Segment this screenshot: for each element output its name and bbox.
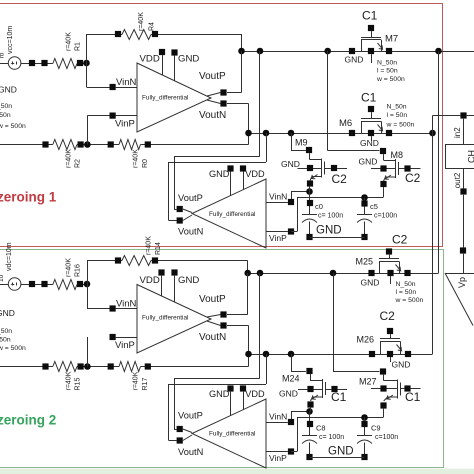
- svg-text:VoutP: VoutP: [199, 294, 226, 305]
- U2 VoutP pin: [177, 206, 183, 212]
- wire nulling VoutN route (bottom): [266, 354, 268, 384]
- svg-text:C1: C1: [361, 91, 377, 105]
- U1 VoutP pin: [220, 89, 226, 95]
- svg-text:r=40K: r=40K: [66, 149, 73, 168]
- U4 VDD pin: [240, 385, 246, 391]
- node mid bus M9 drain: [288, 130, 295, 137]
- node bus2 nulling riser: [257, 270, 264, 277]
- svg-text:l = 50n: l = 50n: [0, 337, 11, 344]
- wire node A2 up to R14 row: [87, 261, 89, 285]
- svg-text:w = 500n: w = 500n: [0, 345, 26, 352]
- U3 VinN pin: [110, 305, 116, 311]
- node top bus / VoutP: [238, 48, 245, 55]
- svg-text:C1: C1: [405, 390, 421, 404]
- svg-text:r=40K: r=40K: [133, 149, 140, 168]
- svg-text:zeroing 2: zeroing 2: [0, 413, 56, 428]
- U2 VinP pin: [288, 228, 294, 234]
- svg-text:in2: in2: [453, 127, 462, 138]
- wire node A2 down to VinN: [87, 284, 89, 309]
- wire R0 to feedback riser: [141, 144, 249, 146]
- resistor R17 r=40K: [119, 362, 140, 372]
- svg-text:Fully_differential: Fully_differential: [142, 95, 188, 102]
- out2 terminal: [460, 188, 466, 194]
- svg-text:r=40K: r=40K: [66, 258, 73, 277]
- pale green strip bottom: [0, 469, 474, 474]
- svg-text:GND: GND: [209, 389, 230, 399]
- svg-text:w = 500n: w = 500n: [395, 297, 424, 304]
- node A2 junction: [84, 281, 91, 288]
- transistor M9 (switch): [291, 133, 293, 150]
- voltage source V1 vcc=10m: [8, 57, 21, 70]
- node bus3 M24 drain: [288, 351, 295, 358]
- U4 GND pin: [227, 385, 233, 391]
- svg-text:r=40K: r=40K: [66, 371, 73, 390]
- U3 VoutN pin: [220, 322, 226, 328]
- svg-text:GND: GND: [345, 55, 364, 65]
- wire VoutN to mid bus: [227, 103, 249, 105]
- U4 VinP pin: [288, 448, 294, 454]
- svg-text:VoutN: VoutN: [199, 110, 226, 121]
- wire R1 to node A: [77, 63, 87, 65]
- wire V2 top bus down to M25 row: [438, 51, 440, 273]
- svg-text:Vp: Vp: [457, 277, 467, 288]
- capacitor c0 c=100n: [309, 192, 311, 215]
- transistor M25 (switch on bus2): [386, 248, 392, 254]
- svg-text:l = 50n: l = 50n: [387, 112, 408, 119]
- wire VinN2 to cap node: [291, 192, 293, 200]
- svg-text:l = 50n: l = 50n: [396, 289, 417, 296]
- U1 VinN pin: [110, 84, 116, 90]
- U3 VoutP pin: [220, 311, 226, 317]
- svg-text:VinN: VinN: [116, 299, 137, 310]
- svg-text:VDD: VDD: [245, 389, 265, 399]
- svg-text:R17: R17: [142, 378, 149, 391]
- svg-text:VDD: VDD: [245, 169, 265, 179]
- wire VinP2 azero run: [291, 231, 297, 233]
- svg-text:M26: M26: [357, 335, 375, 345]
- op-amp U4 nulling Fully_differential triangle (points left): [192, 399, 266, 468]
- wire VoutN3 to bus3: [227, 325, 249, 327]
- node bus3 VoutN4 drop: [263, 351, 270, 358]
- wire source left stub (bottom): [0, 284, 8, 286]
- svg-text:vcc=10m: vcc=10m: [7, 26, 14, 54]
- U4 VinN pin: [288, 419, 294, 425]
- voltage source V2 vdc=10m: [8, 278, 21, 291]
- svg-text:M25: M25: [356, 257, 374, 267]
- svg-text:N_50n: N_50n: [377, 60, 397, 67]
- wire nulling VoutN route: [266, 133, 268, 162]
- svg-text:GND: GND: [178, 275, 199, 286]
- svg-text:R0: R0: [142, 159, 149, 168]
- resistor R16 r=40K: [53, 280, 77, 290]
- wire in2 to chopper: [463, 119, 465, 144]
- svg-text:VinP: VinP: [269, 453, 287, 463]
- wire bottom input row y=366.5: [0, 366, 53, 368]
- svg-text:GND: GND: [360, 138, 379, 148]
- U3 VDD pin: [158, 269, 164, 275]
- red box around zeroing-1 section: [0, 4, 443, 247]
- wire VinN4 to cap node: [291, 411, 293, 419]
- U4 VoutP pin: [177, 426, 183, 432]
- node right bus top: [435, 48, 442, 55]
- svg-text:M7: M7: [385, 34, 398, 45]
- svg-text:R15: R15: [75, 378, 82, 391]
- node B2 junction R15/R17: [84, 363, 91, 370]
- svg-text:VoutN: VoutN: [178, 447, 203, 457]
- mid bus wire y=133: [249, 133, 433, 135]
- svg-text:VDD: VDD: [140, 275, 160, 286]
- U2 GND pin: [227, 165, 233, 171]
- svg-text:N_50n: N_50n: [0, 103, 12, 110]
- node bus2 M27 drain riser: [330, 270, 337, 277]
- U1 VinP pin: [110, 113, 116, 119]
- transistor M26 (switch on bus3): [387, 328, 393, 334]
- svg-text:C2: C2: [392, 233, 408, 247]
- svg-text:VinN: VinN: [269, 412, 287, 422]
- resistor R0 r=40K: [119, 140, 140, 150]
- U2 VinN pin: [288, 199, 294, 205]
- svg-text:CH: CH: [467, 150, 474, 163]
- svg-text:VDD: VDD: [140, 54, 160, 65]
- svg-text:R2: R2: [75, 159, 82, 168]
- wire V1 mid bus down to M26: [432, 133, 434, 354]
- U2 VoutN pin: [177, 217, 183, 223]
- svg-text:VinN: VinN: [116, 77, 137, 88]
- svg-text:C2: C2: [332, 172, 348, 186]
- svg-text:R16: R16: [75, 264, 82, 277]
- svg-text:GND: GND: [392, 360, 411, 370]
- wire in2 riser from mid bus: [432, 116, 434, 134]
- U1 VDD pin: [159, 49, 165, 55]
- svg-text:R4: R4: [149, 22, 156, 31]
- svg-text:GND: GND: [281, 159, 300, 169]
- resistor R15 r=40K: [53, 362, 77, 372]
- transistor M7 (switch on top bus): [368, 25, 374, 31]
- U4 VoutN pin: [177, 437, 183, 443]
- svg-text:VoutN: VoutN: [199, 332, 226, 343]
- svg-text:R14: R14: [155, 242, 162, 255]
- resistor R4 r=40K: [122, 30, 151, 40]
- wire R4 row left: [87, 34, 123, 36]
- svg-text:VoutP: VoutP: [178, 193, 203, 203]
- wire bus3 to M26 right terminal: [411, 354, 432, 356]
- svg-text:w = 500n: w = 500n: [386, 122, 415, 129]
- node VinN4/C8/M24-source: [306, 408, 313, 415]
- svg-text:VoutP: VoutP: [178, 411, 203, 421]
- wire nulling VoutP route (bottom): [259, 273, 261, 379]
- svg-text:w = 500n: w = 500n: [376, 76, 405, 83]
- chopper box CH: [446, 145, 474, 169]
- node for M8 drain riser: [324, 48, 331, 55]
- node mid bus VoutN1: [245, 130, 252, 137]
- op-amp U2 nulling Fully_differential triangle (points left): [192, 179, 266, 248]
- wire source left stub: [0, 63, 8, 65]
- svg-text:N_50n: N_50n: [396, 281, 416, 288]
- svg-text:VinP: VinP: [269, 233, 287, 243]
- node VinN2/C0/M9-source: [306, 188, 313, 195]
- op-amp Vp buffer triangle (partial): [445, 273, 474, 275]
- node for nulling VoutP riser: [257, 48, 264, 55]
- wire nulling VoutP route: [259, 51, 261, 157]
- svg-text:M6: M6: [339, 118, 352, 129]
- svg-text:c=100n: c=100n: [374, 213, 397, 220]
- terminal squares input row: [29, 60, 35, 66]
- svg-text:VoutN: VoutN: [178, 227, 203, 237]
- top bus wire y=51: [242, 51, 474, 53]
- svg-text:Fully_differential: Fully_differential: [209, 211, 255, 218]
- svg-text:N_50n: N_50n: [0, 328, 12, 335]
- resistor R1 r=40K: [53, 59, 77, 69]
- svg-text:C1: C1: [331, 390, 347, 404]
- svg-text:M27: M27: [359, 377, 377, 387]
- third bus wire y=354: [249, 354, 433, 356]
- node A junction: [83, 60, 90, 67]
- svg-text:GND: GND: [0, 85, 17, 95]
- wire node B up to VinP: [87, 116, 89, 145]
- svg-text:r=40K: r=40K: [138, 12, 145, 31]
- svg-text:R1: R1: [75, 42, 82, 51]
- svg-text:C1: C1: [362, 9, 378, 23]
- svg-text:r=40K: r=40K: [146, 236, 153, 255]
- wire drop R4 to top bus: [241, 34, 243, 51]
- capacitor c8 c=100n: [309, 411, 311, 435]
- wire source to resistor R1: [21, 63, 53, 65]
- svg-text:GND: GND: [328, 446, 354, 458]
- wire source to resistor R16: [21, 284, 53, 286]
- wire bottom input row y=144.5: [0, 144, 53, 146]
- svg-text:out2: out2: [453, 172, 462, 188]
- U1 GND pin: [171, 49, 177, 55]
- node mid bus to in2/V1: [429, 130, 436, 137]
- svg-text:VinP: VinP: [115, 119, 135, 130]
- svg-text:GND: GND: [316, 225, 342, 237]
- svg-text:Fully_differential: Fully_differential: [142, 315, 188, 322]
- svg-text:w = 500n: w = 500n: [0, 123, 26, 130]
- transistor M27 (switch): [333, 273, 335, 372]
- wire node A down to VinN: [86, 63, 88, 87]
- capacitor c5 c=100n: [364, 198, 366, 215]
- svg-text:VoutP: VoutP: [199, 71, 226, 82]
- svg-text:C2: C2: [380, 309, 396, 323]
- svg-text:zeroing 1: zeroing 1: [0, 190, 57, 205]
- svg-text:M24: M24: [282, 374, 300, 384]
- node VinP2/C5/M8-source: [361, 194, 368, 201]
- svg-text:GND: GND: [361, 278, 380, 288]
- wire chopper to out2: [463, 168, 465, 188]
- node VinP4/C9/M27-source: [361, 414, 368, 421]
- svg-text:M8: M8: [391, 150, 404, 160]
- svg-text:GND: GND: [209, 169, 230, 179]
- svg-text:M9: M9: [295, 138, 308, 148]
- ground rail between caps: [310, 237, 365, 239]
- svg-text:N_50n: N_50n: [387, 104, 407, 111]
- wire out2 down to Vp buffer: [463, 195, 465, 248]
- svg-text:c= 100n: c= 100n: [318, 213, 343, 220]
- resistor R14 r=40K: [122, 256, 151, 266]
- U2 VDD pin: [240, 165, 246, 171]
- ground rail between caps (bottom): [310, 457, 365, 459]
- svg-text:VinN: VinN: [269, 192, 287, 202]
- op-amp U1 Fully_differential triangle: [137, 63, 211, 132]
- svg-text:r=40K: r=40K: [133, 371, 140, 390]
- node bus2 VoutP riser: [244, 270, 251, 277]
- wire R4 row right: [151, 34, 242, 36]
- svg-text:Fully_differential: Fully_differential: [209, 431, 255, 438]
- svg-text:c= 100n: c= 100n: [319, 434, 344, 441]
- capacitor c9 c=100n: [364, 418, 366, 436]
- svg-text:C8: C8: [316, 424, 326, 433]
- svg-text:rb: rb: [0, 52, 6, 58]
- svg-text:l = 50n: l = 50n: [0, 112, 11, 119]
- op-amp U3 Fully_differential triangle: [137, 285, 211, 354]
- svg-text:GND: GND: [279, 389, 298, 399]
- svg-text:C9: C9: [371, 424, 381, 433]
- svg-text:c0: c0: [315, 202, 323, 211]
- svg-text:c=100n: c=100n: [375, 434, 398, 441]
- transistor M8 (switch): [327, 51, 329, 151]
- U1 VoutN pin: [220, 100, 226, 106]
- svg-text:GND: GND: [359, 157, 378, 167]
- svg-text:GND: GND: [0, 308, 15, 318]
- svg-text:l = 50n: l = 50n: [377, 68, 398, 75]
- in2 terminal: [460, 112, 466, 118]
- svg-text:r=40K: r=40K: [66, 32, 73, 51]
- wire VinP4 azero run: [291, 451, 297, 453]
- transistor M24 (switch): [291, 354, 293, 371]
- node B junction R2/R0: [84, 141, 91, 148]
- U3 GND pin: [171, 269, 177, 275]
- green box around zeroing-2 section: [0, 250, 444, 468]
- svg-text:c5: c5: [370, 202, 378, 211]
- svg-text:C2: C2: [405, 171, 421, 185]
- node bus3 VoutN3: [245, 351, 252, 358]
- wire VoutP riser: [241, 51, 243, 93]
- transistor M6 (switch on mid bus): [368, 106, 374, 112]
- node mid bus VoutN2 drop: [263, 130, 270, 137]
- second bus wire y=273: [248, 273, 439, 275]
- svg-text:GND: GND: [178, 54, 199, 65]
- wire node A up to R4 row: [86, 34, 88, 63]
- svg-text:VinP: VinP: [115, 340, 135, 351]
- resistor R2 r=40K: [53, 140, 77, 150]
- svg-text:vdc=10m: vdc=10m: [6, 242, 13, 271]
- svg-text:10: 10: [0, 274, 5, 282]
- U3 VinP pin: [110, 334, 116, 340]
